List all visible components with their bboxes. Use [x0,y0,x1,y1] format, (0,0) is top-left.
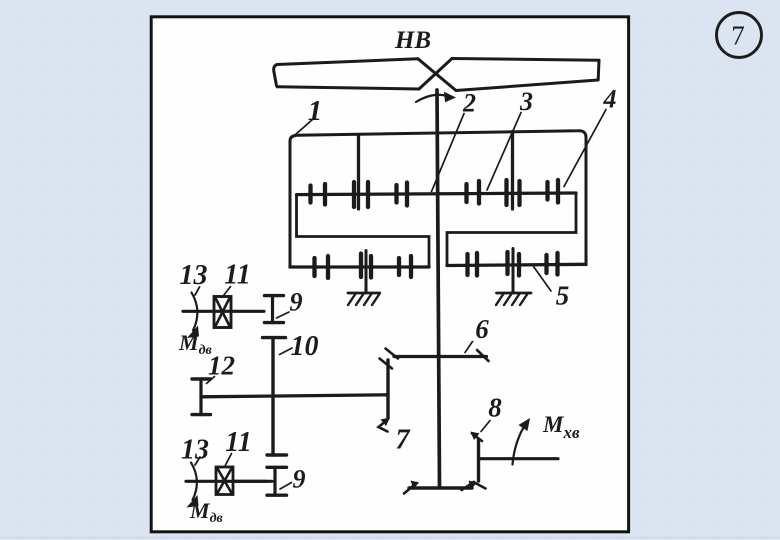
svg-text:9: 9 [293,465,306,494]
svg-text:8: 8 [488,393,502,423]
svg-text:11: 11 [224,260,250,291]
svg-text:13: 13 [181,435,209,466]
svg-text:13: 13 [180,260,208,291]
svg-text:НВ: НВ [394,27,431,54]
svg-text:4: 4 [603,85,617,114]
svg-text:10: 10 [291,331,319,362]
svg-text:7: 7 [396,425,411,456]
svg-text:2: 2 [462,89,476,118]
svg-text:1: 1 [308,95,323,127]
svg-text:3: 3 [519,87,533,116]
svg-text:11: 11 [225,427,251,458]
svg-text:5: 5 [556,281,570,311]
svg-text:6: 6 [475,314,489,344]
svg-text:12: 12 [208,351,235,381]
svg-text:7: 7 [731,21,745,51]
svg-text:9: 9 [290,288,303,317]
